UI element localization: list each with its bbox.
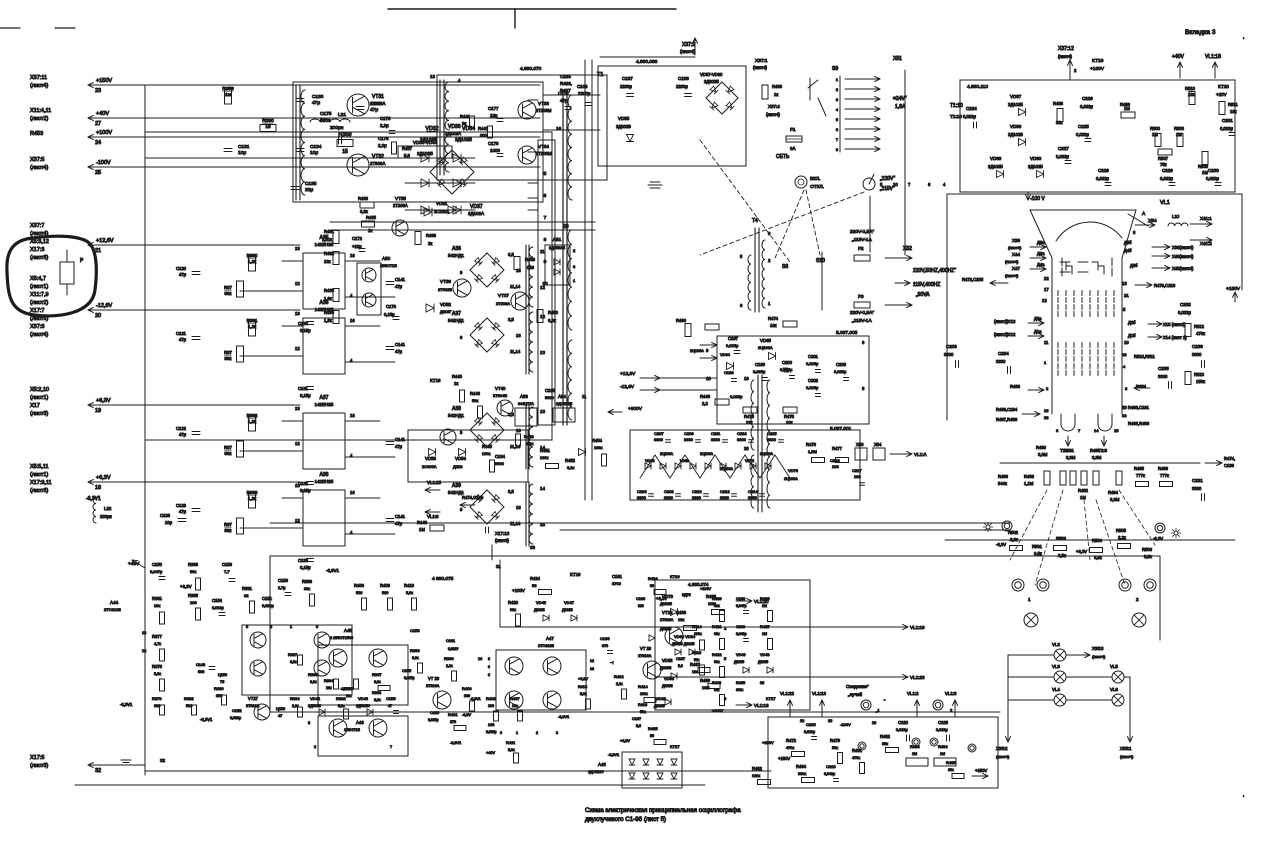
svg-text:200μн: 200μн xyxy=(330,125,344,131)
svg-text:68к: 68к xyxy=(714,660,720,664)
svg-text:2к: 2к xyxy=(428,241,432,246)
svg-text:R420: R420 xyxy=(508,600,519,605)
svg-text:0,15μ: 0,15μ xyxy=(300,393,311,398)
svg-text:24: 24 xyxy=(95,140,101,146)
svg-text:C214: C214 xyxy=(748,489,758,494)
svg-text:0,15μ: 0,15μ xyxy=(300,328,311,333)
svg-text:5,6к: 5,6к xyxy=(406,591,413,595)
svg-text:C178: C178 xyxy=(488,141,499,146)
svg-text:2Д102Б: 2Д102Б xyxy=(1028,164,1043,169)
svg-text:5: 5 xyxy=(836,118,838,122)
svg-text:Вкладка 3: Вкладка 3 xyxy=(1185,29,1216,36)
svg-text:Д223Б: Д223Б xyxy=(734,660,745,664)
svg-text:C153: C153 xyxy=(222,562,233,567)
svg-text:R493: R493 xyxy=(1090,448,1101,453)
svg-text:0,15μ: 0,15μ xyxy=(300,565,311,570)
svg-text:310: 310 xyxy=(638,604,644,608)
svg-text:R400: R400 xyxy=(462,686,472,691)
svg-text:R510,R511: R510,R511 xyxy=(1134,354,1156,359)
svg-text:R508: R508 xyxy=(1174,126,1185,131)
svg-text:T4: T4 xyxy=(752,218,758,224)
svg-text:3А: 3А xyxy=(790,146,796,151)
svg-text:+6,3V: +6,3V xyxy=(180,584,192,589)
svg-text:7: 7 xyxy=(390,745,392,749)
svg-text:1М: 1М xyxy=(1152,132,1158,137)
svg-text:C188: C188 xyxy=(678,76,689,81)
svg-text:C216: C216 xyxy=(830,458,840,463)
svg-text:R479,C218: R479,C218 xyxy=(1154,283,1176,288)
svg-text:R406: R406 xyxy=(354,583,365,588)
svg-text:2Т208А: 2Т208А xyxy=(496,301,510,306)
svg-text:VD66: VD66 xyxy=(645,459,655,463)
svg-text:„115V-1А: „115V-1А xyxy=(852,237,872,243)
svg-text:-100 V: -100 V xyxy=(1030,196,1045,202)
svg-text:47μ: 47μ xyxy=(312,100,320,106)
svg-text:R382: R382 xyxy=(184,696,194,701)
svg-text:VT36: VT36 xyxy=(440,279,451,284)
svg-text:100: 100 xyxy=(832,464,839,469)
svg-text:R379: R379 xyxy=(152,696,162,701)
svg-text:+150V: +150V xyxy=(1226,286,1241,292)
svg-text:R422: R422 xyxy=(712,652,722,657)
svg-text:Д223Б: Д223Б xyxy=(660,601,672,606)
svg-text:3300: 3300 xyxy=(711,437,721,442)
svg-text:Д816Г: Д816Г xyxy=(440,309,452,314)
svg-text:0,043μ: 0,043μ xyxy=(736,632,746,636)
svg-text:3300: 3300 xyxy=(748,495,758,500)
svg-text:544к: 544к xyxy=(998,481,1007,486)
svg-text:13: 13 xyxy=(295,311,300,316)
svg-text:13: 13 xyxy=(295,483,300,488)
svg-text:15: 15 xyxy=(1114,428,1119,433)
svg-text:R397: R397 xyxy=(372,672,382,677)
svg-text:33: 33 xyxy=(530,545,536,550)
svg-text:X41:1: X41:1 xyxy=(1200,216,1212,221)
svg-text:R466: R466 xyxy=(676,610,687,615)
svg-text:KT17: KT17 xyxy=(670,744,680,749)
svg-text:2: 2 xyxy=(536,731,538,735)
svg-text:X17:5: X17:5 xyxy=(30,755,44,761)
svg-text:R452: R452 xyxy=(565,458,576,463)
svg-text:A45: A45 xyxy=(344,628,353,633)
svg-text:542НД1: 542НД1 xyxy=(448,253,464,258)
svg-text:R464: R464 xyxy=(796,764,807,769)
svg-text:R377: R377 xyxy=(152,634,163,639)
svg-text:3,3к: 3,3к xyxy=(567,465,575,470)
svg-text:X5:3,12: X5:3,12 xyxy=(30,239,49,245)
svg-text:12: 12 xyxy=(295,281,300,286)
svg-text:(лист4): (лист4) xyxy=(1058,54,1073,59)
svg-text:0,022μ: 0,022μ xyxy=(963,114,976,119)
svg-text:X44: X44 xyxy=(1012,252,1021,257)
svg-text:-6,3V1: -6,3V1 xyxy=(608,753,619,757)
svg-text:1,2к: 1,2к xyxy=(248,259,256,264)
svg-text:(лист1): (лист1) xyxy=(30,472,48,478)
svg-text:X37:4: X37:4 xyxy=(768,104,780,109)
svg-text:(лист4): (лист4) xyxy=(1120,754,1134,759)
svg-text:68к: 68к xyxy=(714,632,720,636)
svg-text:3300: 3300 xyxy=(654,437,664,442)
svg-text:560: 560 xyxy=(198,670,204,674)
svg-text:C141: C141 xyxy=(395,514,406,519)
svg-text:2ДС523Б: 2ДС523Б xyxy=(549,246,566,250)
svg-text:13: 13 xyxy=(540,409,546,414)
svg-text:A36: A36 xyxy=(452,246,461,252)
svg-text:(лист3): (лист3) xyxy=(495,538,510,543)
svg-text:R476: R476 xyxy=(806,442,817,447)
svg-text:X45(лист4): X45(лист4) xyxy=(1172,266,1194,271)
svg-text:22μ: 22μ xyxy=(305,187,313,193)
svg-text:3: 3 xyxy=(836,98,838,102)
svg-text:R442: R442 xyxy=(478,126,489,131)
svg-text:2Ц106А: 2Ц106А xyxy=(784,477,798,481)
svg-text:(лист2): (лист2) xyxy=(30,300,48,306)
svg-text:R392: R392 xyxy=(336,696,346,701)
svg-text:X11:4,11: X11:4,11 xyxy=(30,108,51,114)
svg-text:1М: 1М xyxy=(1176,132,1182,137)
svg-text:3,5: 3,5 xyxy=(508,317,514,322)
svg-text:Д223Б: Д223Б xyxy=(758,660,769,664)
svg-text:6,8к: 6,8к xyxy=(290,660,297,664)
svg-text:R388: R388 xyxy=(308,672,318,677)
svg-text:+100V: +100V xyxy=(712,709,724,713)
svg-text:S8: S8 xyxy=(782,264,788,270)
svg-text:R496: R496 xyxy=(1158,466,1169,471)
svg-text:47μ: 47μ xyxy=(179,432,187,437)
svg-text:Д223Б: Д223Б xyxy=(534,608,545,612)
svg-text:A53: A53 xyxy=(520,394,528,399)
svg-text:2200μ: 2200μ xyxy=(676,84,688,89)
svg-text:(лист2): (лист2) xyxy=(30,116,48,122)
svg-text:VL2: VL2 xyxy=(1052,642,1060,647)
svg-text:Д223Б: Д223Б xyxy=(660,666,672,670)
svg-text:16: 16 xyxy=(350,490,355,495)
svg-text:2,2к: 2,2к xyxy=(616,682,623,686)
svg-text:VD37: VD37 xyxy=(470,204,483,210)
svg-text:R421: R421 xyxy=(712,624,722,629)
svg-text:56к: 56к xyxy=(640,710,646,714)
svg-text:VT34: VT34 xyxy=(538,144,549,149)
svg-text:2,2μ: 2,2μ xyxy=(380,123,389,128)
svg-text:2,2к: 2,2к xyxy=(1010,537,1018,542)
svg-text:VT27: VT27 xyxy=(248,696,259,701)
svg-text:C167: C167 xyxy=(632,717,641,721)
svg-text:R401: R401 xyxy=(448,712,458,717)
svg-text:X5:2,10: X5:2,10 xyxy=(30,387,49,393)
svg-text:2: 2 xyxy=(314,745,316,749)
svg-text:R483: R483 xyxy=(1024,474,1035,479)
svg-text:11: 11 xyxy=(582,394,587,399)
svg-text:VL1:18: VL1:18 xyxy=(1205,54,1221,60)
svg-text:3300: 3300 xyxy=(720,495,730,500)
svg-text:16: 16 xyxy=(516,505,521,510)
svg-text:0,015μ: 0,015μ xyxy=(806,361,819,366)
svg-text:C205: C205 xyxy=(806,722,816,727)
svg-text:(лист4): (лист4) xyxy=(680,49,695,54)
svg-text:2200μ: 2200μ xyxy=(620,84,632,89)
svg-text:R424: R424 xyxy=(648,576,658,581)
svg-text:2ТС613Б: 2ТС613Б xyxy=(104,607,121,612)
svg-text:-12,6V: -12,6V xyxy=(96,303,113,309)
svg-text:Д1б: Д1б xyxy=(1128,333,1136,338)
svg-text:+12,6V: +12,6V xyxy=(96,238,114,244)
svg-text:VL6: VL6 xyxy=(1110,687,1118,692)
svg-text:двухлучевого С1-96 (лист 5): двухлучевого С1-96 (лист 5) xyxy=(585,816,666,823)
svg-text:X17:3: X17:3 xyxy=(30,247,44,253)
svg-text:8: 8 xyxy=(836,148,838,152)
svg-text:VL1:15: VL1:15 xyxy=(427,480,441,485)
svg-text:R513: R513 xyxy=(1194,372,1205,377)
svg-text:R360: R360 xyxy=(247,253,258,258)
svg-text:18к: 18к xyxy=(692,670,698,674)
svg-text:+6,3V: +6,3V xyxy=(96,398,111,404)
svg-text:Д2б: Д2б xyxy=(1128,320,1136,325)
svg-text:(лист2)X12: (лист2)X12 xyxy=(994,332,1016,337)
svg-text:Д223: Д223 xyxy=(453,464,463,469)
svg-text:300: 300 xyxy=(480,133,488,138)
svg-text:20: 20 xyxy=(95,313,101,319)
svg-text:(лист4): (лист4) xyxy=(1008,245,1022,250)
svg-text:R416: R416 xyxy=(638,703,647,707)
svg-text:3300: 3300 xyxy=(1158,374,1168,379)
svg-text:A37: A37 xyxy=(452,311,461,317)
svg-text:C207: C207 xyxy=(654,431,664,436)
svg-text:22: 22 xyxy=(1044,276,1049,281)
svg-text:X35:3: X35:3 xyxy=(1092,646,1104,651)
svg-text:C200: C200 xyxy=(782,360,793,365)
svg-text:1к: 1к xyxy=(368,228,372,233)
svg-text:2Д202Б: 2Д202Б xyxy=(704,79,719,84)
svg-text:KT16: KT16 xyxy=(670,574,680,579)
svg-text:R384: R384 xyxy=(290,696,300,701)
svg-text:X11:7,9: X11:7,9 xyxy=(30,292,49,298)
svg-text:18: 18 xyxy=(95,485,101,491)
svg-text:R467,R469: R467,R469 xyxy=(996,417,1018,422)
svg-text:21: 21 xyxy=(1124,293,1129,298)
svg-text:(лист4): (лист4) xyxy=(1005,273,1019,278)
svg-text:C176: C176 xyxy=(378,136,389,141)
svg-text:R378: R378 xyxy=(152,664,163,669)
svg-text:R483: R483 xyxy=(1010,384,1021,389)
svg-text:A51: A51 xyxy=(553,237,562,243)
svg-text:R394: R394 xyxy=(324,679,333,683)
svg-text:R443: R443 xyxy=(470,391,481,396)
svg-text:VD72: VD72 xyxy=(745,459,754,463)
svg-text:20: 20 xyxy=(563,224,569,230)
svg-text:VD48: VD48 xyxy=(760,653,770,657)
svg-text:R416: R416 xyxy=(692,651,701,655)
svg-text:9: 9 xyxy=(488,665,490,669)
svg-text:11,14: 11,14 xyxy=(510,349,521,354)
svg-text:L21: L21 xyxy=(338,112,346,118)
svg-text:C122: C122 xyxy=(176,426,187,431)
svg-text:C123: C123 xyxy=(176,503,187,508)
svg-text:+180V: +180V xyxy=(1090,66,1105,72)
svg-text:VD85: VD85 xyxy=(662,658,673,663)
svg-text:C229: C229 xyxy=(1162,168,1173,173)
svg-text:R492: R492 xyxy=(1078,488,1089,493)
svg-text:R502: R502 xyxy=(1008,530,1019,535)
svg-text:C185: C185 xyxy=(545,388,556,393)
svg-text:1: 1 xyxy=(516,731,518,735)
svg-text:10μ: 10μ xyxy=(238,150,246,156)
svg-text:21: 21 xyxy=(95,248,101,254)
svg-text:142ЕН2Б: 142ЕН2Б xyxy=(315,242,334,247)
svg-text:C158: C158 xyxy=(278,578,289,583)
svg-text:VT 29: VT 29 xyxy=(640,646,652,651)
svg-text:2Ц106А: 2Ц106А xyxy=(758,345,773,350)
svg-text:X52: X52 xyxy=(903,246,912,252)
svg-text:C209: C209 xyxy=(684,431,694,436)
svg-text:Д1а: Д1а xyxy=(1034,329,1042,334)
svg-text:68к: 68к xyxy=(948,768,954,772)
svg-text:A48: A48 xyxy=(598,762,606,767)
svg-text:29: 29 xyxy=(872,721,876,725)
svg-text:115V,400HZ: 115V,400HZ xyxy=(913,282,940,288)
svg-text:22: 22 xyxy=(800,719,804,723)
svg-text:Д223Б: Д223Б xyxy=(654,704,665,708)
svg-text:5,6: 5,6 xyxy=(404,153,410,158)
svg-text:470к: 470к xyxy=(1196,331,1205,336)
svg-text:R506: R506 xyxy=(1142,547,1153,552)
svg-text:3,3М: 3,3М xyxy=(1110,497,1120,502)
svg-text:2Т602Б: 2Т602Б xyxy=(438,287,452,292)
svg-text:14: 14 xyxy=(540,486,546,491)
svg-text:R413: R413 xyxy=(578,685,587,689)
svg-text:0,022?: 0,022? xyxy=(448,647,458,651)
svg-text:R399: R399 xyxy=(444,656,454,661)
svg-text:R391: R391 xyxy=(242,586,253,591)
svg-text:0,022μ: 0,022μ xyxy=(1220,126,1233,131)
svg-text:C141: C141 xyxy=(395,437,406,442)
svg-text:R37: R37 xyxy=(224,285,232,290)
svg-text:VT23: VT23 xyxy=(662,610,673,615)
svg-text:R380: R380 xyxy=(214,686,224,691)
svg-text:R383: R383 xyxy=(188,593,199,598)
svg-text:56к: 56к xyxy=(832,746,838,750)
svg-text:56: 56 xyxy=(532,583,537,588)
svg-text:R484: R484 xyxy=(938,744,948,749)
svg-text:R477: R477 xyxy=(832,446,843,451)
svg-text:C186: C186 xyxy=(577,84,588,89)
svg-text:47μ: 47μ xyxy=(179,337,187,342)
svg-text:+6,3V: +6,3V xyxy=(656,596,667,601)
svg-text:2С162А: 2С162А xyxy=(434,209,449,214)
svg-text:VT32: VT32 xyxy=(372,154,384,160)
svg-text:C134: C134 xyxy=(310,144,322,150)
svg-text:13к: 13к xyxy=(324,259,331,264)
svg-text:R505: R505 xyxy=(1116,528,1127,533)
svg-text:18: 18 xyxy=(1122,352,1127,357)
svg-text:„90VA: „90VA xyxy=(916,292,930,298)
svg-text:C224: C224 xyxy=(966,106,977,111)
svg-text:R491: R491 xyxy=(1064,448,1075,453)
svg-text:2,2к: 2,2к xyxy=(1118,535,1126,540)
svg-text:S10: S10 xyxy=(816,258,825,264)
svg-text:X37:8: X37:8 xyxy=(30,324,44,330)
svg-text:200μн: 200μн xyxy=(100,514,112,519)
svg-text:L22: L22 xyxy=(104,506,112,511)
svg-text:1М: 1М xyxy=(419,527,425,532)
svg-text:X15 (лист2): X15 (лист2) xyxy=(1163,322,1186,327)
svg-text:5,6: 5,6 xyxy=(636,724,641,728)
svg-text:2С600А: 2С600А xyxy=(422,464,437,469)
svg-text:26: 26 xyxy=(828,719,832,723)
svg-text:56: 56 xyxy=(650,734,654,738)
svg-text:+40V: +40V xyxy=(486,751,495,755)
svg-text:C130: C130 xyxy=(312,94,324,100)
svg-text:C213: C213 xyxy=(737,431,747,436)
svg-text:Д2а: Д2а xyxy=(1034,316,1042,321)
svg-text:+20V: +20V xyxy=(1216,92,1227,97)
svg-text:R393: R393 xyxy=(372,691,381,695)
svg-text:12: 12 xyxy=(1042,298,1047,303)
svg-text:C221: C221 xyxy=(1192,478,1203,483)
svg-text:1М: 1М xyxy=(912,752,917,756)
svg-text:2Т808А: 2Т808А xyxy=(370,161,385,166)
svg-text:КТ604Б: КТ604Б xyxy=(493,393,507,398)
svg-text:08к: 08к xyxy=(510,608,516,612)
svg-text:13: 13 xyxy=(295,406,300,411)
svg-text:C173: C173 xyxy=(380,116,391,121)
svg-text:(лист4): (лист4) xyxy=(1005,259,1019,264)
svg-text:08к: 08к xyxy=(714,604,720,608)
svg-text:2Т808А: 2Т808А xyxy=(370,101,385,106)
svg-text:6: 6 xyxy=(544,193,547,199)
svg-text:0,015μ: 0,015μ xyxy=(428,718,438,722)
svg-text:6: 6 xyxy=(500,731,502,735)
svg-text:-100V: -100V xyxy=(840,722,851,727)
svg-text:3300: 3300 xyxy=(664,495,674,500)
svg-text:163: 163 xyxy=(488,723,494,727)
svg-text:+150V: +150V xyxy=(762,740,774,745)
svg-text:X17: X17 xyxy=(30,403,40,409)
svg-text:VL3: VL3 xyxy=(1052,664,1060,669)
svg-text:4,7к: 4,7к xyxy=(154,642,161,646)
svg-text:1М: 1М xyxy=(762,604,767,608)
svg-text:0,022μ: 0,022μ xyxy=(1096,176,1109,181)
svg-text:C135: C135 xyxy=(305,181,317,187)
svg-text:X17:7: X17:7 xyxy=(30,308,44,314)
svg-text:0,047μ: 0,047μ xyxy=(150,569,163,574)
svg-text:510: 510 xyxy=(382,591,388,595)
svg-text:VT37: VT37 xyxy=(498,293,509,298)
svg-text:R462: R462 xyxy=(752,766,763,771)
svg-text:C184: C184 xyxy=(495,454,506,459)
svg-text:R434: R434 xyxy=(324,310,335,315)
svg-text:R424: R424 xyxy=(530,576,541,581)
svg-text:100: 100 xyxy=(488,704,494,708)
svg-text:(лист3): (лист3) xyxy=(30,411,48,417)
svg-text:3,3М: 3,3М xyxy=(1066,455,1076,460)
svg-text:(лист2)X13: (лист2)X13 xyxy=(994,319,1016,324)
svg-text:10μ: 10μ xyxy=(310,150,318,156)
svg-text:R432: R432 xyxy=(324,251,335,256)
svg-text:VD43: VD43 xyxy=(358,696,369,701)
svg-text:KT19: KT19 xyxy=(1092,58,1104,64)
svg-text:1,5М: 1,5М xyxy=(808,449,817,454)
svg-text:⊣: ⊣ xyxy=(610,660,614,665)
svg-text:3300: 3300 xyxy=(1192,486,1202,491)
svg-text:VD38-VD44: VD38-VD44 xyxy=(413,140,438,145)
svg-text:0,047μ: 0,047μ xyxy=(736,604,746,608)
svg-text:Д223Б Д223Б: Д223Б Д223Б xyxy=(672,642,695,646)
svg-text:562: 562 xyxy=(225,451,233,456)
svg-text:R387: R387 xyxy=(288,653,297,657)
svg-text:X38: X38 xyxy=(1012,238,1021,243)
svg-text:A44: A44 xyxy=(110,600,119,605)
svg-text:+12,6V: +12,6V xyxy=(620,371,636,377)
